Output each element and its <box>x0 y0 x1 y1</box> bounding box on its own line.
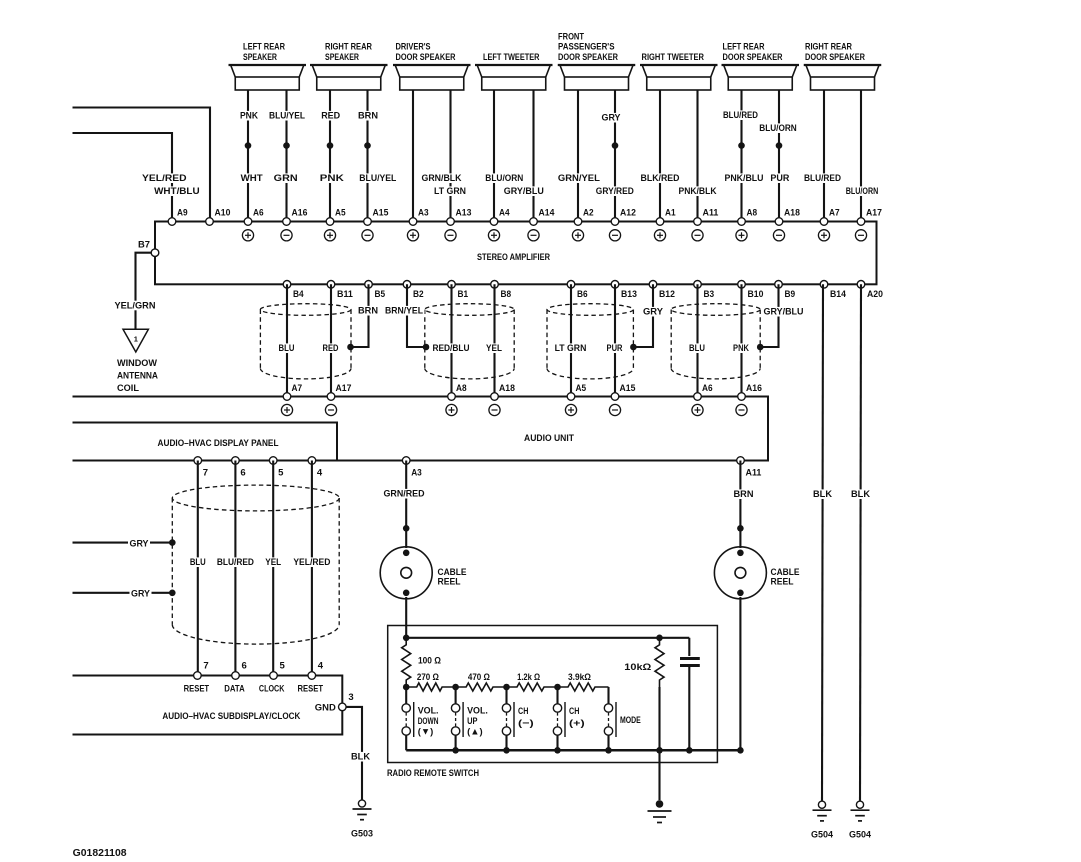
svg-text:ANTENNA: ANTENNA <box>117 371 158 382</box>
svg-text:RIGHT TWEETER: RIGHT TWEETER <box>642 52 705 63</box>
svg-text:A10: A10 <box>215 208 231 218</box>
wire FRONT PASSENGER'S DOOR SPEAKER left lead <box>577 90 579 222</box>
svg-text:100 Ω: 100 Ω <box>418 656 441 667</box>
polarity + at A7 <box>818 230 829 241</box>
svg-text:5: 5 <box>278 468 283 478</box>
label WHT/BLU <box>153 186 202 196</box>
svg-text:A5: A5 <box>335 208 346 218</box>
terminal A16 on amplifier <box>283 218 291 226</box>
svg-text:GND: GND <box>315 702 336 713</box>
terminal A15 on audio unit <box>611 393 619 401</box>
junction bottom bus x=506.5 <box>503 747 510 754</box>
svg-text:A14: A14 <box>539 208 556 218</box>
wire YEL display panel harness <box>272 461 274 676</box>
svg-text:A13: A13 <box>456 208 472 218</box>
svg-text:CH: CH <box>569 706 579 717</box>
wire LEFT TWEETER right lead <box>532 90 534 222</box>
polarity - at A14 <box>528 230 539 241</box>
svg-text:B9: B9 <box>785 289 796 299</box>
terminal B4 on amplifier bottom <box>283 281 291 289</box>
junction GRY 1 on shield <box>169 539 176 546</box>
junction top bus / reel wire <box>403 635 410 642</box>
label PUR <box>605 343 624 353</box>
wire A20 BLK to G504 <box>860 284 861 800</box>
resistor 10k ohm (upper) <box>655 638 664 687</box>
svg-text:AUDIO UNIT: AUDIO UNIT <box>524 433 574 444</box>
polarity + at audio unit A6 <box>692 404 703 415</box>
wire B5 BRN shield stub <box>352 284 369 347</box>
polarity + at audio unit A7 <box>281 404 292 415</box>
svg-text:B12: B12 <box>659 289 675 299</box>
junction on wire x=779 <box>776 142 783 149</box>
svg-text:1: 1 <box>134 335 138 344</box>
terminal A11 on amplifier <box>694 218 702 226</box>
svg-text:MODE: MODE <box>620 715 641 726</box>
svg-text:(▲): (▲) <box>467 727 483 738</box>
window antenna coil <box>123 329 148 352</box>
terminal B7 on amplifier left edge <box>151 249 159 257</box>
label GRN <box>272 173 299 183</box>
svg-text:GRY: GRY <box>643 307 664 318</box>
label BLU/ORN <box>844 186 880 196</box>
terminal A4 on amplifier <box>490 218 498 226</box>
resistor 470 ohm <box>456 683 507 691</box>
junction on wire x=615 <box>612 142 619 149</box>
polarity - at A13 <box>445 230 456 241</box>
wire B12 GRY shield stub <box>634 284 653 347</box>
svg-text:YEL: YEL <box>265 557 281 568</box>
svg-text:PUR: PUR <box>607 343 623 354</box>
svg-text:BLK/RED: BLK/RED <box>641 173 680 184</box>
stereo amplifier U1 box <box>155 222 877 285</box>
polarity + at A6 <box>242 230 253 241</box>
label RED <box>321 343 340 353</box>
polarity + at A5 <box>324 230 335 241</box>
terminal 4 on subdisplay <box>308 672 316 680</box>
junction node VOL.DOWN <box>403 684 410 691</box>
svg-text:(▼): (▼) <box>418 727 434 738</box>
label RED <box>320 111 342 121</box>
terminal B9 on amplifier bottom <box>775 281 783 289</box>
svg-text:PNK/BLU: PNK/BLU <box>725 173 764 184</box>
junction top bus / 10k resistor <box>656 635 663 642</box>
svg-text:B2: B2 <box>413 289 424 299</box>
label YEL <box>264 557 283 567</box>
label GRY <box>130 589 152 599</box>
svg-text:GRN/YEL: GRN/YEL <box>558 173 600 184</box>
terminal A1 on amplifier <box>656 218 664 226</box>
label BLU/ORN <box>484 173 525 183</box>
terminal A7 on audio unit <box>283 393 291 401</box>
junction on wire x=741.5 <box>738 142 745 149</box>
terminal B6 on amplifier bottom <box>567 281 575 289</box>
svg-text:UP: UP <box>467 716 478 727</box>
junction on wire x=286.5 <box>283 142 290 149</box>
label GRY <box>642 307 665 317</box>
svg-text:B3: B3 <box>704 289 715 299</box>
wire DRIVER'S DOOR SPEAKER left lead <box>412 90 414 222</box>
label GRY <box>128 539 150 549</box>
wire LEFT TWEETER left lead <box>493 90 495 222</box>
terminal A12 on amplifier <box>611 218 619 226</box>
wire B9 GRY/BLU shield stub <box>761 284 779 347</box>
svg-text:A18: A18 <box>499 383 515 393</box>
label YEL/GRN <box>113 301 157 311</box>
terminal 7 on bottom edge <box>194 457 202 465</box>
svg-text:BLU/YEL: BLU/YEL <box>269 111 305 122</box>
svg-text:B6: B6 <box>577 289 588 299</box>
label LT GRN <box>433 186 468 196</box>
svg-text:A7: A7 <box>292 383 303 393</box>
terminal A6 on amplifier <box>244 218 252 226</box>
polarity + at A1 <box>654 230 665 241</box>
terminal A13 on amplifier <box>447 218 455 226</box>
terminal A8 on amplifier <box>738 218 746 226</box>
resistor 3.9k ohm <box>558 683 609 691</box>
polarity + at audio unit A5 <box>565 404 576 415</box>
wire FRONT PASSENGER'S DOOR SPEAKER right lead <box>614 90 616 222</box>
wire GRY shield 2 <box>73 592 172 594</box>
switch CH (+) <box>553 687 584 750</box>
terminal 5 on bottom edge <box>269 457 277 465</box>
polarity - at audio unit A18 <box>489 404 500 415</box>
svg-text:A7: A7 <box>829 208 840 218</box>
radio remote switch box <box>388 626 718 763</box>
shielded harness cylinder <box>172 485 339 644</box>
svg-text:A5: A5 <box>576 383 587 393</box>
cable reel (A3) <box>380 547 432 599</box>
wire B8-A18 (YEL) <box>493 284 495 396</box>
wire LEFT REAR SPEAKER left lead <box>247 90 249 222</box>
wire LEFT REAR DOOR SPEAKER left lead <box>740 90 742 222</box>
svg-text:A17: A17 <box>336 383 352 393</box>
svg-text:A11: A11 <box>746 468 762 478</box>
svg-text:B8: B8 <box>501 289 512 299</box>
svg-text:AUDIO–HVAC SUBDISPLAY/CLOCK: AUDIO–HVAC SUBDISPLAY/CLOCK <box>162 711 300 722</box>
svg-text:PUR: PUR <box>770 173 789 184</box>
label PNK <box>318 173 345 183</box>
svg-text:A15: A15 <box>373 208 389 218</box>
svg-text:PNK: PNK <box>733 343 749 354</box>
svg-text:CLOCK: CLOCK <box>259 683 285 694</box>
terminal 4 on bottom edge <box>308 457 316 465</box>
shielded pair 1 (BLU/RED) <box>260 304 351 379</box>
junction node VOL.UP <box>452 684 459 691</box>
junction B5 shield <box>347 344 354 351</box>
wire 10k to bottom bus <box>658 687 660 750</box>
svg-text:PNK/BLK: PNK/BLK <box>679 186 717 197</box>
terminal 6 on subdisplay <box>232 672 240 680</box>
wire bottom bus <box>406 749 740 752</box>
svg-text:B13: B13 <box>621 289 637 299</box>
resistor 270 ohm <box>406 683 455 691</box>
shielded pair 4 (BLU/PNK) <box>671 304 760 379</box>
polarity - at audio unit A16 <box>736 404 747 415</box>
speaker RIGHT REAR SPEAKER <box>310 42 388 90</box>
switch VOL. UP (▲) <box>451 687 488 750</box>
svg-text:A12: A12 <box>620 208 636 218</box>
svg-text:B5: B5 <box>375 289 386 299</box>
switch MODE <box>604 687 641 750</box>
svg-text:A6: A6 <box>702 383 713 393</box>
terminal A6 on audio unit <box>694 393 702 401</box>
label BLU/RED <box>722 110 760 120</box>
wire BLK from GND to G503 <box>346 707 362 800</box>
label YEL/RED <box>292 557 332 567</box>
terminal A15 on amplifier <box>364 218 372 226</box>
label BRN <box>357 306 380 316</box>
svg-text:B10: B10 <box>748 289 764 299</box>
terminal A3 on amplifier <box>409 218 417 226</box>
svg-text:G503: G503 <box>351 829 373 840</box>
wire GRY shield 1 <box>73 542 172 544</box>
terminal A9 on amplifier <box>168 218 176 226</box>
polarity - at A12 <box>609 230 620 241</box>
terminal 5 on subdisplay <box>270 672 278 680</box>
polarity - at A18 <box>773 230 784 241</box>
polarity - at audio unit A15 <box>609 404 620 415</box>
wire RIGHT REAR SPEAKER right lead <box>366 90 368 222</box>
wire B3-A6 (BLU) <box>696 284 698 396</box>
label BRN/YEL <box>384 306 425 316</box>
svg-text:GRY/RED: GRY/RED <box>596 186 634 197</box>
svg-text:SPEAKER: SPEAKER <box>243 52 277 63</box>
terminal A18 on audio unit <box>491 393 499 401</box>
ground G504 (A20) <box>849 801 872 841</box>
wire B4-A7 (BLU) <box>286 284 288 396</box>
svg-text:BLU/ORN: BLU/ORN <box>485 173 523 184</box>
label BLK (GND) <box>350 752 372 762</box>
svg-text:GRY/BLU: GRY/BLU <box>504 186 544 197</box>
polarity + at A2 <box>572 230 583 241</box>
wire B11-A17 (RED) <box>330 284 332 396</box>
svg-text:LEFT TWEETER: LEFT TWEETER <box>483 52 540 63</box>
svg-text:RESET: RESET <box>184 683 210 694</box>
label BLK (A20) <box>850 489 872 499</box>
terminal 6 on bottom edge <box>232 457 240 465</box>
terminal B12 on amplifier bottom <box>649 281 657 289</box>
junction on wire x=367.5 <box>364 142 371 149</box>
svg-text:VOL.: VOL. <box>418 706 439 717</box>
junction on wire x=248 <box>245 142 252 149</box>
svg-text:WINDOW: WINDOW <box>117 358 157 369</box>
label GRN/YEL <box>556 173 601 183</box>
terminal A14 on amplifier <box>530 218 538 226</box>
svg-text:1.2k Ω: 1.2k Ω <box>517 672 540 683</box>
junction B12 shield <box>630 344 637 351</box>
label PNK/BLU <box>723 173 765 183</box>
terminal B2 on amplifier bottom <box>403 281 411 289</box>
label BLU <box>188 557 207 567</box>
svg-text:B4: B4 <box>293 289 304 299</box>
svg-text:(+): (+) <box>569 718 585 729</box>
terminal B5 on amplifier bottom <box>365 281 373 289</box>
speaker DRIVER'S DOOR SPEAKER <box>393 42 471 90</box>
speaker LEFT REAR DOOR SPEAKER <box>722 42 800 90</box>
label GRN/BLK <box>420 173 463 183</box>
svg-text:GRN: GRN <box>274 173 298 184</box>
wire B10-A16 (PNK) <box>740 284 742 396</box>
svg-text:BLU/RED: BLU/RED <box>217 557 254 568</box>
resistor 100 ohm <box>402 638 411 687</box>
svg-text:BLU/RED: BLU/RED <box>723 110 758 121</box>
label BLU/RED <box>803 173 843 183</box>
label GRY/RED <box>594 186 635 196</box>
svg-text:A8: A8 <box>456 383 467 393</box>
svg-text:YEL/RED: YEL/RED <box>142 173 187 184</box>
wire RIGHT REAR DOOR SPEAKER left lead <box>823 90 825 222</box>
polarity - at A11 <box>692 230 703 241</box>
svg-text:DOWN: DOWN <box>418 716 439 727</box>
junction on wire x=330 <box>327 142 334 149</box>
svg-text:BLU: BLU <box>279 343 295 354</box>
wire RIGHT REAR SPEAKER left lead <box>329 90 331 222</box>
svg-text:GRN/BLK: GRN/BLK <box>422 173 462 184</box>
terminal B1 on amplifier bottom <box>448 281 456 289</box>
svg-text:A3: A3 <box>418 208 429 218</box>
label GRY/BLU <box>762 307 805 317</box>
wire 10k to ground <box>658 750 660 800</box>
label PNK <box>732 343 751 353</box>
terminal A5 on amplifier <box>326 218 334 226</box>
junction bottom bus x=608.5 <box>605 747 612 754</box>
terminal B10 on amplifier bottom <box>738 281 746 289</box>
wire B6-A5 (LT GRN) <box>570 284 572 396</box>
svg-text:A1: A1 <box>665 208 676 218</box>
label BRN <box>732 489 755 499</box>
svg-text:BRN: BRN <box>734 489 754 500</box>
svg-text:LT GRN: LT GRN <box>555 343 587 354</box>
svg-text:YEL/RED: YEL/RED <box>293 557 330 568</box>
speaker RIGHT TWEETER <box>640 52 718 90</box>
svg-text:DOOR SPEAKER: DOOR SPEAKER <box>805 52 865 63</box>
terminal A17 on amplifier <box>857 218 865 226</box>
wire WHT/BLU from left to A10 <box>73 108 211 222</box>
wire B13-A15 (PUR) <box>614 284 616 396</box>
svg-text:BLU: BLU <box>689 343 705 354</box>
polarity + at audio unit A8 <box>446 404 457 415</box>
label BLK/RED <box>639 173 681 183</box>
speaker LEFT REAR SPEAKER <box>229 42 307 90</box>
svg-text:(−): (−) <box>518 718 534 729</box>
svg-text:PNK: PNK <box>240 111 258 122</box>
wire BLU/RED display panel harness <box>234 461 236 676</box>
wire YEL/RED display panel harness <box>311 461 313 676</box>
svg-text:A17: A17 <box>866 208 882 218</box>
svg-text:4: 4 <box>318 661 324 671</box>
speaker LEFT TWEETER <box>475 52 553 90</box>
svg-text:DOOR SPEAKER: DOOR SPEAKER <box>723 52 783 63</box>
junction on A11 wire <box>737 525 744 532</box>
svg-text:REEL: REEL <box>438 577 461 588</box>
ground G504 (B14) <box>811 801 834 841</box>
label PNK <box>239 111 260 121</box>
svg-text:B14: B14 <box>830 289 847 299</box>
svg-text:A8: A8 <box>747 208 758 218</box>
svg-text:3: 3 <box>348 692 353 702</box>
junction bottom bus x=659.5 <box>656 747 663 754</box>
junction bottom bus x=557.5 <box>554 747 561 754</box>
switch VOL. DOWN (▼) <box>402 687 439 750</box>
wire YEL/GRN from B7 to window antenna coil <box>136 253 152 329</box>
svg-text:GRY: GRY <box>130 539 150 550</box>
audio-hvac subdisplay/clock box <box>73 676 343 735</box>
label BLU/ORN <box>758 123 799 133</box>
svg-text:VOL.: VOL. <box>467 706 488 717</box>
label GRN/RED <box>382 489 426 499</box>
audio-hvac display panel box <box>73 423 338 461</box>
svg-text:BRN: BRN <box>358 306 378 317</box>
svg-text:A9: A9 <box>177 208 188 218</box>
audio unit box <box>73 397 769 461</box>
svg-text:WHT/BLU: WHT/BLU <box>154 186 200 197</box>
speaker RIGHT REAR DOOR SPEAKER <box>804 42 882 90</box>
terminal A8 on audio unit <box>448 393 456 401</box>
svg-text:RED/BLU: RED/BLU <box>432 343 469 354</box>
label BLK (B14) <box>812 489 834 499</box>
svg-text:GRY: GRY <box>602 113 622 124</box>
resistor 1.2k ohm <box>507 683 558 691</box>
switch CH (−) <box>502 687 533 750</box>
wire cable reel 1 to radio remote switch <box>405 597 407 638</box>
capacitor C1 <box>680 638 700 751</box>
wire B2 BRN/YEL shield stub <box>407 284 426 347</box>
svg-text:A2: A2 <box>583 208 594 218</box>
wire YEL/RED from left to A9 <box>73 133 173 222</box>
terminal GND 3 on subdisplay <box>339 703 347 711</box>
svg-text:B1: B1 <box>458 289 469 299</box>
svg-text:DATA: DATA <box>224 683 245 694</box>
wire BLU display panel harness <box>197 461 199 676</box>
label BLU <box>277 343 296 353</box>
svg-text:BLK: BLK <box>351 752 370 763</box>
wire GRN/RED from A3 to cable reel <box>405 461 407 549</box>
wire RIGHT REAR DOOR SPEAKER right lead <box>860 90 862 222</box>
ground G503 <box>351 800 373 840</box>
svg-text:YEL: YEL <box>486 343 502 354</box>
wire DRIVER'S DOOR SPEAKER right lead <box>449 90 451 222</box>
terminal B13 on amplifier bottom <box>611 281 619 289</box>
svg-text:RADIO REMOTE SWITCH: RADIO REMOTE SWITCH <box>387 768 479 779</box>
svg-text:7: 7 <box>203 661 208 671</box>
label PUR <box>769 173 791 183</box>
svg-text:LT GRN: LT GRN <box>434 186 466 197</box>
svg-text:A11: A11 <box>703 208 719 218</box>
svg-text:PNK: PNK <box>320 173 344 184</box>
polarity + at A8 <box>736 230 747 241</box>
terminal A11 on bottom edge <box>737 457 745 465</box>
svg-text:A15: A15 <box>620 383 636 393</box>
svg-text:RESET: RESET <box>298 683 324 694</box>
terminal A18 on amplifier <box>775 218 783 226</box>
svg-text:BRN: BRN <box>358 111 378 122</box>
wire LEFT REAR SPEAKER right lead <box>285 90 287 222</box>
terminal A5 on audio unit <box>567 393 575 401</box>
svg-text:G01821108: G01821108 <box>73 847 127 859</box>
svg-text:470 Ω: 470 Ω <box>468 672 490 683</box>
label PNK/BLK <box>677 186 718 196</box>
terminal A3 on bottom edge <box>402 457 410 465</box>
svg-text:10kΩ: 10kΩ <box>624 662 651 673</box>
terminal B14 on amplifier bottom <box>820 281 828 289</box>
svg-text:B7: B7 <box>138 240 150 250</box>
svg-text:GRN/RED: GRN/RED <box>384 489 425 500</box>
polarity - at A16 <box>281 230 292 241</box>
svg-text:BLU/ORN: BLU/ORN <box>759 123 797 134</box>
svg-text:A6: A6 <box>253 208 264 218</box>
svg-text:AUDIO–HVAC DISPLAY PANEL: AUDIO–HVAC DISPLAY PANEL <box>158 438 279 449</box>
svg-text:DOOR SPEAKER: DOOR SPEAKER <box>558 52 618 63</box>
